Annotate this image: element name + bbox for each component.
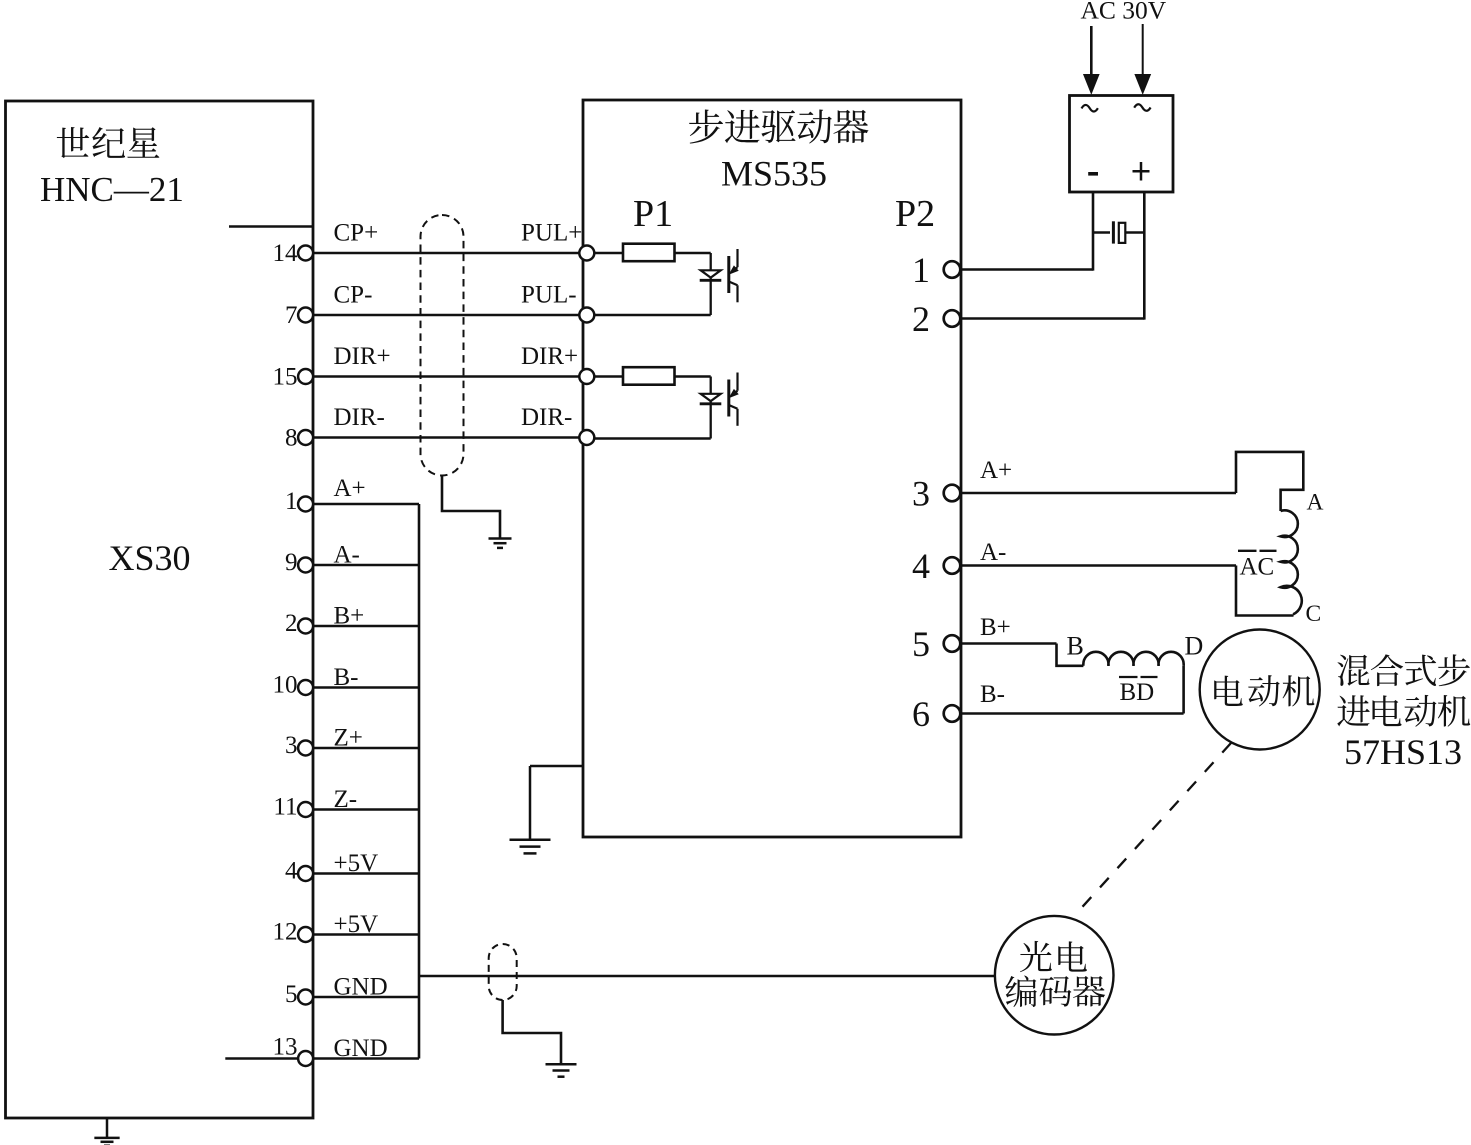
pin 3 XS30	[298, 741, 313, 756]
svg-text:A-: A-	[334, 542, 360, 569]
svg-text:11: 11	[273, 794, 297, 821]
encoder text 光电	[1020, 941, 1087, 972]
svg-text:2: 2	[912, 299, 930, 339]
title 步进驱动器	[689, 109, 868, 143]
pin PUL- P1	[579, 308, 594, 323]
ground (XS30 chassis)	[94, 1118, 119, 1145]
wire winding D to B- row	[1182, 666, 1185, 714]
CNC controller box 世纪星 HNC-21 XS30	[6, 101, 314, 1118]
minus terminal label	[1088, 172, 1098, 176]
svg-text:AC 30V: AC 30V	[1081, 0, 1167, 25]
overline B	[1119, 676, 1138, 678]
wire B+ pin 2	[313, 625, 419, 628]
svg-text:10: 10	[273, 672, 298, 699]
wire pin 3 A+ to winding	[960, 492, 1236, 495]
svg-text:14: 14	[273, 240, 299, 267]
optocoupler U1 LED	[700, 270, 722, 280]
wire pin to resistor R2	[594, 375, 623, 378]
encoder circle 光电编码器	[995, 916, 1114, 1035]
svg-text:DIR-: DIR-	[334, 404, 385, 431]
winding A-C (coil)	[1281, 510, 1302, 614]
pin 5 XS30	[298, 990, 313, 1005]
motor circle 电动机	[1200, 630, 1320, 750]
wire Z- pin 11	[313, 808, 419, 811]
ground (shield 1)	[489, 538, 512, 548]
svg-text:1: 1	[285, 488, 298, 515]
svg-text:13: 13	[273, 1034, 298, 1061]
pin 3 P2	[944, 485, 961, 502]
overline A	[1238, 550, 1257, 552]
pin 13 XS30	[298, 1051, 313, 1066]
svg-text:9: 9	[285, 549, 298, 576]
svg-text:GND: GND	[334, 974, 388, 1001]
svg-text:DIR+: DIR+	[521, 343, 578, 370]
pin 10 XS30	[298, 680, 313, 695]
svg-text:B+: B+	[980, 614, 1011, 641]
pin 1 XS30	[298, 497, 313, 512]
svg-text:1: 1	[912, 250, 930, 290]
svg-text:PUL-: PUL-	[521, 282, 577, 309]
wire A- to winding C end	[1236, 566, 1294, 616]
svg-text:57HS13: 57HS13	[1344, 732, 1462, 772]
pin DIR+ P1	[579, 369, 594, 384]
wire driver ground branch	[530, 765, 583, 768]
svg-text:MS535: MS535	[721, 154, 827, 194]
svg-text:A+: A+	[334, 475, 366, 502]
svg-text:DIR-: DIR-	[521, 404, 572, 431]
wire pin 1 to supply minus	[960, 268, 1093, 271]
pin 2 XS30	[298, 619, 313, 634]
wire resistor R2 to LED	[675, 375, 711, 378]
wire pin 6 B-	[960, 712, 1184, 715]
resistor R1	[623, 244, 675, 262]
dashed shaft link motor-encoder	[1075, 743, 1231, 915]
wire LED return U2	[594, 437, 711, 440]
pin 8 XS30	[298, 430, 313, 445]
svg-text:A: A	[1307, 490, 1324, 516]
svg-text:5: 5	[285, 981, 298, 1008]
pin 11 XS30	[298, 802, 313, 817]
capacitor C1 (polarized)	[1113, 221, 1125, 243]
overline D	[1141, 676, 1158, 678]
wire LED branch U2	[710, 377, 712, 439]
note line 混合式步	[1337, 654, 1469, 686]
ground (shield 2)	[546, 1063, 577, 1077]
plus terminal label	[1133, 162, 1150, 181]
pin 1 P2	[944, 261, 961, 278]
wire pin 5 B+ to winding	[960, 642, 1057, 645]
resistor R2	[623, 367, 675, 385]
svg-text:3: 3	[285, 732, 298, 759]
wire supply minus lead	[1092, 192, 1095, 271]
svg-text:3: 3	[912, 473, 930, 513]
wire pin to resistor R1	[594, 252, 623, 255]
svg-text:4: 4	[285, 858, 298, 885]
optocoupler U1 phototransistor	[729, 249, 738, 302]
svg-text:A-: A-	[980, 539, 1006, 566]
svg-text:PUL+: PUL+	[521, 220, 582, 247]
stepper driver box MS535	[583, 100, 961, 837]
wire pin 4 A- to winding	[960, 564, 1236, 567]
wire A+ step to winding A	[1236, 452, 1303, 511]
wire +5V pin 4	[313, 872, 419, 875]
AC power supply box	[1070, 96, 1174, 193]
bus rail joining XS30 signal pins	[418, 504, 421, 1059]
wire CP+ pin 14 to driver	[313, 252, 583, 255]
svg-text:DIR+: DIR+	[334, 343, 391, 370]
pin 7 XS30	[298, 308, 313, 323]
wire A- pin 9	[313, 564, 419, 567]
pin 5 P2	[944, 635, 961, 652]
svg-text:C: C	[1306, 601, 1322, 627]
wire supply plus lead	[1143, 192, 1146, 320]
wire LED branch U1	[710, 253, 712, 315]
wire resistor R1 to LED	[675, 252, 711, 255]
svg-text:P2: P2	[895, 193, 935, 235]
wire shield drain to ground	[442, 476, 500, 538]
wire GND pin 13	[313, 1057, 419, 1060]
pin DIR- P1	[579, 430, 594, 445]
ground (driver)	[510, 766, 551, 853]
svg-text:XS30: XS30	[109, 538, 191, 578]
pin 9 XS30	[298, 558, 313, 573]
optocoupler U2 LED	[700, 394, 722, 404]
svg-text:CP-: CP-	[334, 282, 373, 309]
svg-text:A+: A+	[980, 457, 1012, 484]
note line 进电动机	[1337, 695, 1470, 727]
optocoupler U2 phototransistor	[729, 373, 738, 426]
pin 4 P2	[944, 557, 961, 574]
title 世纪星	[57, 127, 160, 158]
svg-text:Z+: Z+	[334, 725, 363, 752]
pin PUL+ P1	[579, 246, 594, 261]
pin 14 XS30	[298, 246, 313, 261]
svg-text:P1: P1	[633, 193, 673, 235]
encoder text 编码器	[1005, 976, 1105, 1007]
svg-text:B+: B+	[334, 603, 365, 630]
AC terminal tilde 2	[1134, 104, 1150, 111]
svg-text:5: 5	[912, 624, 930, 664]
motor text 电动机	[1214, 675, 1314, 706]
svg-text:Z-: Z-	[334, 786, 358, 813]
pin 12 XS30	[298, 927, 313, 942]
shielded-cable symbol (dashed capsule) on CP/DIR lines	[421, 215, 464, 476]
pin 6 P2	[944, 705, 961, 722]
svg-text:7: 7	[285, 302, 298, 329]
wire stub above pin 14	[229, 225, 313, 228]
wire A+ pin 1	[313, 503, 419, 506]
shielded-cable symbol (dashed capsule) on encoder line	[489, 944, 517, 1000]
svg-text:6: 6	[912, 694, 930, 734]
svg-text:CP+: CP+	[334, 220, 379, 247]
svg-text:BD: BD	[1120, 679, 1155, 706]
svg-text:2: 2	[285, 610, 298, 637]
wire DIR- pin 8 to driver	[313, 436, 583, 439]
wire capacitor to plus lead	[1125, 231, 1144, 234]
wire GND rail to encoder	[419, 975, 995, 978]
wire pin 2 to supply plus	[960, 317, 1145, 320]
winding B-D (coil)	[1083, 652, 1183, 666]
svg-text:HNC—21: HNC—21	[40, 170, 184, 209]
arrow AC input 1	[1084, 26, 1099, 94]
wire shield drain 2 to ground	[503, 1000, 561, 1063]
wire +5V pin 12	[313, 933, 419, 936]
svg-text:12: 12	[273, 919, 298, 946]
svg-text:B: B	[1067, 632, 1084, 661]
wire stub left of pin 13	[225, 1057, 299, 1060]
svg-text:+5V: +5V	[334, 911, 379, 938]
svg-text:8: 8	[285, 425, 298, 452]
svg-text:+5V: +5V	[334, 850, 379, 877]
wire Z+ pin 3	[313, 747, 419, 750]
pin 15 XS30	[298, 369, 313, 384]
svg-text:GND: GND	[334, 1035, 388, 1062]
pin 4 XS30	[298, 866, 313, 881]
wire B+ step down	[1057, 644, 1084, 666]
wire LED return U1	[594, 314, 711, 317]
wire B- pin 10	[313, 686, 419, 689]
svg-text:B-: B-	[334, 664, 359, 691]
svg-text:AC: AC	[1240, 554, 1275, 581]
svg-text:B-: B-	[980, 681, 1005, 708]
pin 2 P2	[944, 310, 961, 327]
svg-text:4: 4	[912, 546, 930, 586]
wire to capacitor C1	[1093, 231, 1110, 234]
wire CP- pin 7 to driver	[313, 314, 583, 317]
wire DIR+ pin 15 to driver	[313, 375, 583, 378]
overline C	[1260, 550, 1277, 552]
AC terminal tilde 1	[1082, 105, 1098, 112]
svg-text:D: D	[1185, 632, 1204, 661]
wire GND pin 5	[313, 996, 419, 999]
svg-text:15: 15	[273, 364, 298, 391]
arrow AC input 2	[1135, 24, 1150, 94]
